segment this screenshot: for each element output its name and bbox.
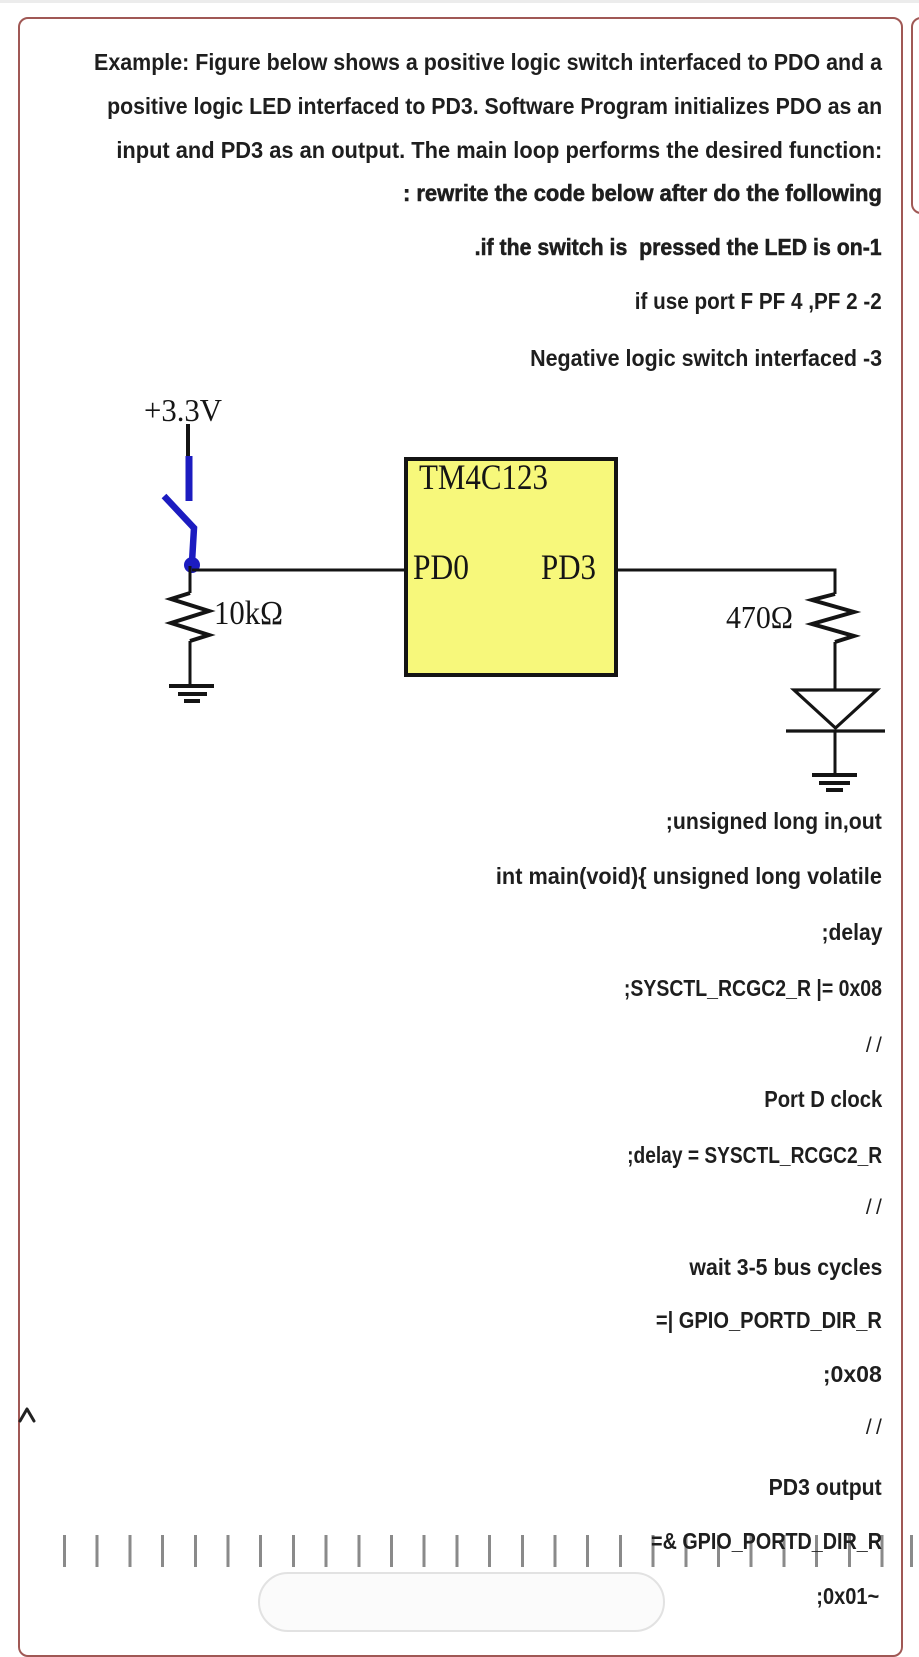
cursor bar on next page fragment (910, 1535, 913, 1567)
wire from +3.3V to switch (186, 424, 190, 457)
cursor bars row (63, 1535, 885, 1567)
code lines (666, 810, 882, 833)
resistor R1 10k zigzag (171, 593, 209, 641)
item 3 (530, 347, 882, 370)
MCU U1 TM4C123 box (406, 459, 616, 675)
ground symbol right (812, 775, 857, 790)
svg-text:+3.3V: +3.3V (144, 392, 222, 428)
bold line 4 (403, 182, 882, 205)
item 2 (635, 290, 882, 313)
switch SW1 blade (blue) (164, 496, 194, 562)
node A junction dot (blue) (184, 557, 200, 573)
svg-text:TM4C123: TM4C123 (419, 457, 548, 497)
wire PD3 to corner (616, 570, 835, 594)
LED D1 triangle (anode) (794, 690, 877, 728)
keyboard popup top edge (258, 1572, 665, 1632)
svg-text:10kΩ: 10kΩ (214, 595, 283, 632)
switch SW1 fixed contact (blue) (186, 456, 193, 501)
svg-text:470Ω: 470Ω (726, 599, 793, 635)
svg-text:PD0: PD0 (413, 547, 469, 587)
wire node A down to resistor R1 (189, 566, 192, 593)
LED D1 cathode bar (786, 729, 885, 732)
paragraph line 2 (107, 95, 882, 118)
paragraph line 1 (94, 51, 882, 74)
top gray strip (0, 0, 919, 3)
wire node A to PD0 (192, 569, 406, 572)
svg-text:PD3: PD3 (541, 547, 596, 587)
ground symbol left (169, 686, 214, 701)
next page card fragment (right edge) (911, 17, 919, 214)
item 1 (475, 236, 882, 259)
paragraph line 3 (116, 139, 882, 162)
wire resistor R2 to LED D1 (834, 642, 837, 690)
scroll caret (0, 0, 60, 1600)
resistor R2 470 zigzag (812, 594, 854, 642)
wire resistor R1 to ground (189, 641, 192, 686)
wire LED D1 to ground (834, 731, 837, 774)
